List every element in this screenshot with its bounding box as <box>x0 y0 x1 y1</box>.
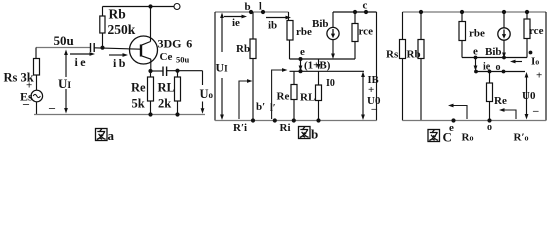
wire: to output corner <box>178 70 203 72</box>
svg-text:–: – <box>371 103 378 115</box>
voltage arrow UI (double headed) <box>65 52 67 77</box>
svg-text:UI: UI <box>216 61 229 75</box>
resistance arrow R'i <box>239 81 250 119</box>
node: dot near Io label <box>529 51 533 55</box>
resistor Re of circuit b <box>293 71 295 84</box>
wire: top rail of circuit C <box>403 11 547 13</box>
current source Bib of circuit C <box>502 10 506 14</box>
current source Bib <box>327 27 339 39</box>
svg-text:rbe: rbe <box>296 26 312 38</box>
svg-text:(1+B): (1+B) <box>304 60 331 72</box>
svg-text:Ri: Ri <box>280 122 291 134</box>
current arrow ie (e wire down) <box>474 56 478 60</box>
svg-text:Ro: Ro <box>462 132 474 144</box>
resistance arrow Ro <box>451 106 467 120</box>
svg-text:b′: b′ <box>256 101 265 113</box>
node c <box>364 10 368 14</box>
svg-text:rbe: rbe <box>469 28 485 40</box>
wire: collector lead down <box>150 7 152 42</box>
node o (bottom) <box>487 118 491 122</box>
current arrow ie <box>70 53 92 55</box>
svg-text:RL: RL <box>158 81 175 95</box>
wire: collector rail (c wire) <box>333 11 377 13</box>
svg-text:Io: Io <box>531 56 539 68</box>
wire: right border of circuit b <box>376 12 378 121</box>
svg-text:R′o: R′o <box>514 132 529 144</box>
voltage arrow UI (double headed) <box>221 15 223 53</box>
node e (bottom port) <box>451 118 455 122</box>
resistor Re (5k) of circuit a <box>150 71 152 77</box>
svg-text:rce: rce <box>359 26 374 38</box>
svg-text:250k: 250k <box>108 22 136 37</box>
svg-text:ie: ie <box>232 17 240 29</box>
svg-text:Rs: Rs <box>386 49 399 61</box>
resistor Re of circuit C <box>489 72 491 84</box>
voltage arrow Uo <box>202 71 204 85</box>
capacitor C1 (50u input coupling) <box>90 43 92 52</box>
svg-text:2k: 2k <box>158 97 171 111</box>
svg-text:Uo: Uo <box>200 87 214 101</box>
current arrow ie <box>224 16 244 18</box>
resistor rbe of circuit C <box>460 10 464 14</box>
resistor Rs (3k) <box>35 48 37 59</box>
svg-text:Rb: Rb <box>407 49 421 61</box>
wire: emitter output rail wire2 <box>290 70 365 72</box>
svg-text:rce: rce <box>529 25 544 37</box>
svg-text:C: C <box>443 130 452 145</box>
svg-text:RL: RL <box>300 92 315 104</box>
node: rce top junction <box>353 10 357 14</box>
current arrow ib <box>266 17 288 19</box>
svg-text:i b: i b <box>113 56 126 70</box>
node 1' <box>273 118 277 122</box>
svg-text:i e: i e <box>75 55 87 69</box>
svg-text:Ce: Ce <box>160 51 173 63</box>
voltage arrow U0 with IB <box>362 74 364 118</box>
svg-text:–: – <box>532 105 539 117</box>
resistance arrow R'o <box>502 110 516 119</box>
node b <box>249 10 253 14</box>
node: RL top junction <box>175 69 179 73</box>
svg-text:a: a <box>108 128 115 143</box>
resistor Rb (250k) <box>102 7 104 17</box>
svg-text:R′i: R′i <box>233 122 247 134</box>
voltage arrow U0 of circuit C <box>526 75 528 118</box>
node: emitter junction <box>148 69 152 73</box>
svg-text:Rb: Rb <box>236 43 250 55</box>
wire: o-node wire2 of circuit C <box>476 71 525 73</box>
node b' <box>251 118 255 122</box>
wire: ground rail of circuit b <box>215 120 377 122</box>
resistor rbe <box>288 12 290 21</box>
svg-text:50u: 50u <box>176 55 190 65</box>
svg-text:Bib: Bib <box>485 46 502 58</box>
svg-text:Bib: Bib <box>312 18 329 30</box>
caption 图a <box>96 129 108 141</box>
node RL bottom <box>316 118 320 122</box>
svg-text:b: b <box>311 127 318 142</box>
wire: ground rail of circuit a <box>34 114 205 116</box>
resistor Rb of circuit b <box>252 12 254 39</box>
node: Re bottom <box>148 112 152 116</box>
transistor Q1 (3DG 6) <box>130 36 158 64</box>
svg-text:50u: 50u <box>54 33 74 48</box>
current arrow ib <box>109 54 125 56</box>
current arrow (1+B) from e-wire down <box>299 57 303 61</box>
svg-text:e: e <box>300 46 305 58</box>
svg-text:Re: Re <box>131 81 146 95</box>
node: Re bottom junction <box>292 118 296 122</box>
resistor RL of circuit b with Io arrow <box>318 71 320 85</box>
svg-text:3DG 6: 3DG 6 <box>158 37 193 51</box>
svg-text:–: – <box>22 97 30 111</box>
svg-text:ib: ib <box>268 20 277 32</box>
wire: top supply rail of circuit a <box>103 6 175 8</box>
svg-text:b: b <box>245 1 251 13</box>
resistor rce <box>354 12 356 24</box>
wire: left border <box>214 12 216 121</box>
svg-text:–: – <box>48 101 56 115</box>
resistor Rs of circuit C <box>402 12 404 39</box>
svg-text:l: l <box>259 2 262 13</box>
wire: input rail from Rs to coupling cap <box>36 47 91 49</box>
svg-text:l′: l′ <box>270 103 276 114</box>
svg-text:+: + <box>536 70 542 82</box>
resistor rce of circuit C <box>525 10 529 14</box>
wire: emitter node wire1 <box>290 58 356 60</box>
resistor RL (2k) of circuit a <box>177 71 179 77</box>
svg-text:Rb: Rb <box>109 7 126 22</box>
source Es <box>31 90 43 102</box>
svg-text:c: c <box>363 0 368 12</box>
wire: emitter lead down <box>150 59 152 71</box>
node: collector junction on supply rail <box>148 4 152 8</box>
node: RL bottom <box>175 112 179 116</box>
current arrow Io <box>513 61 522 63</box>
svg-text:Re: Re <box>494 95 507 107</box>
wire: right border of circuit C <box>545 12 547 121</box>
capacitor Ce (output coupling) <box>151 70 164 72</box>
svg-text:5k: 5k <box>132 97 145 111</box>
terminal: supply terminal circle top right of circuit a <box>174 4 180 10</box>
svg-text:o: o <box>487 122 492 133</box>
resistance arrow Ri <box>272 70 285 119</box>
wire: cap to base <box>94 48 141 49</box>
wire: ground rail of circuit C <box>403 120 547 122</box>
caption 图b <box>299 127 311 139</box>
node: junction of Rb with base wire <box>100 46 104 50</box>
caption 图C <box>428 130 440 142</box>
svg-text:Re: Re <box>277 91 290 103</box>
resistor Rb of circuit C <box>419 10 423 14</box>
svg-text:U0: U0 <box>522 90 536 102</box>
wire: input top rail (b wire) <box>215 11 289 13</box>
wire: e-node wire1 of circuit C <box>462 57 527 59</box>
svg-text:I0: I0 <box>326 78 335 89</box>
node 1 <box>261 10 265 14</box>
